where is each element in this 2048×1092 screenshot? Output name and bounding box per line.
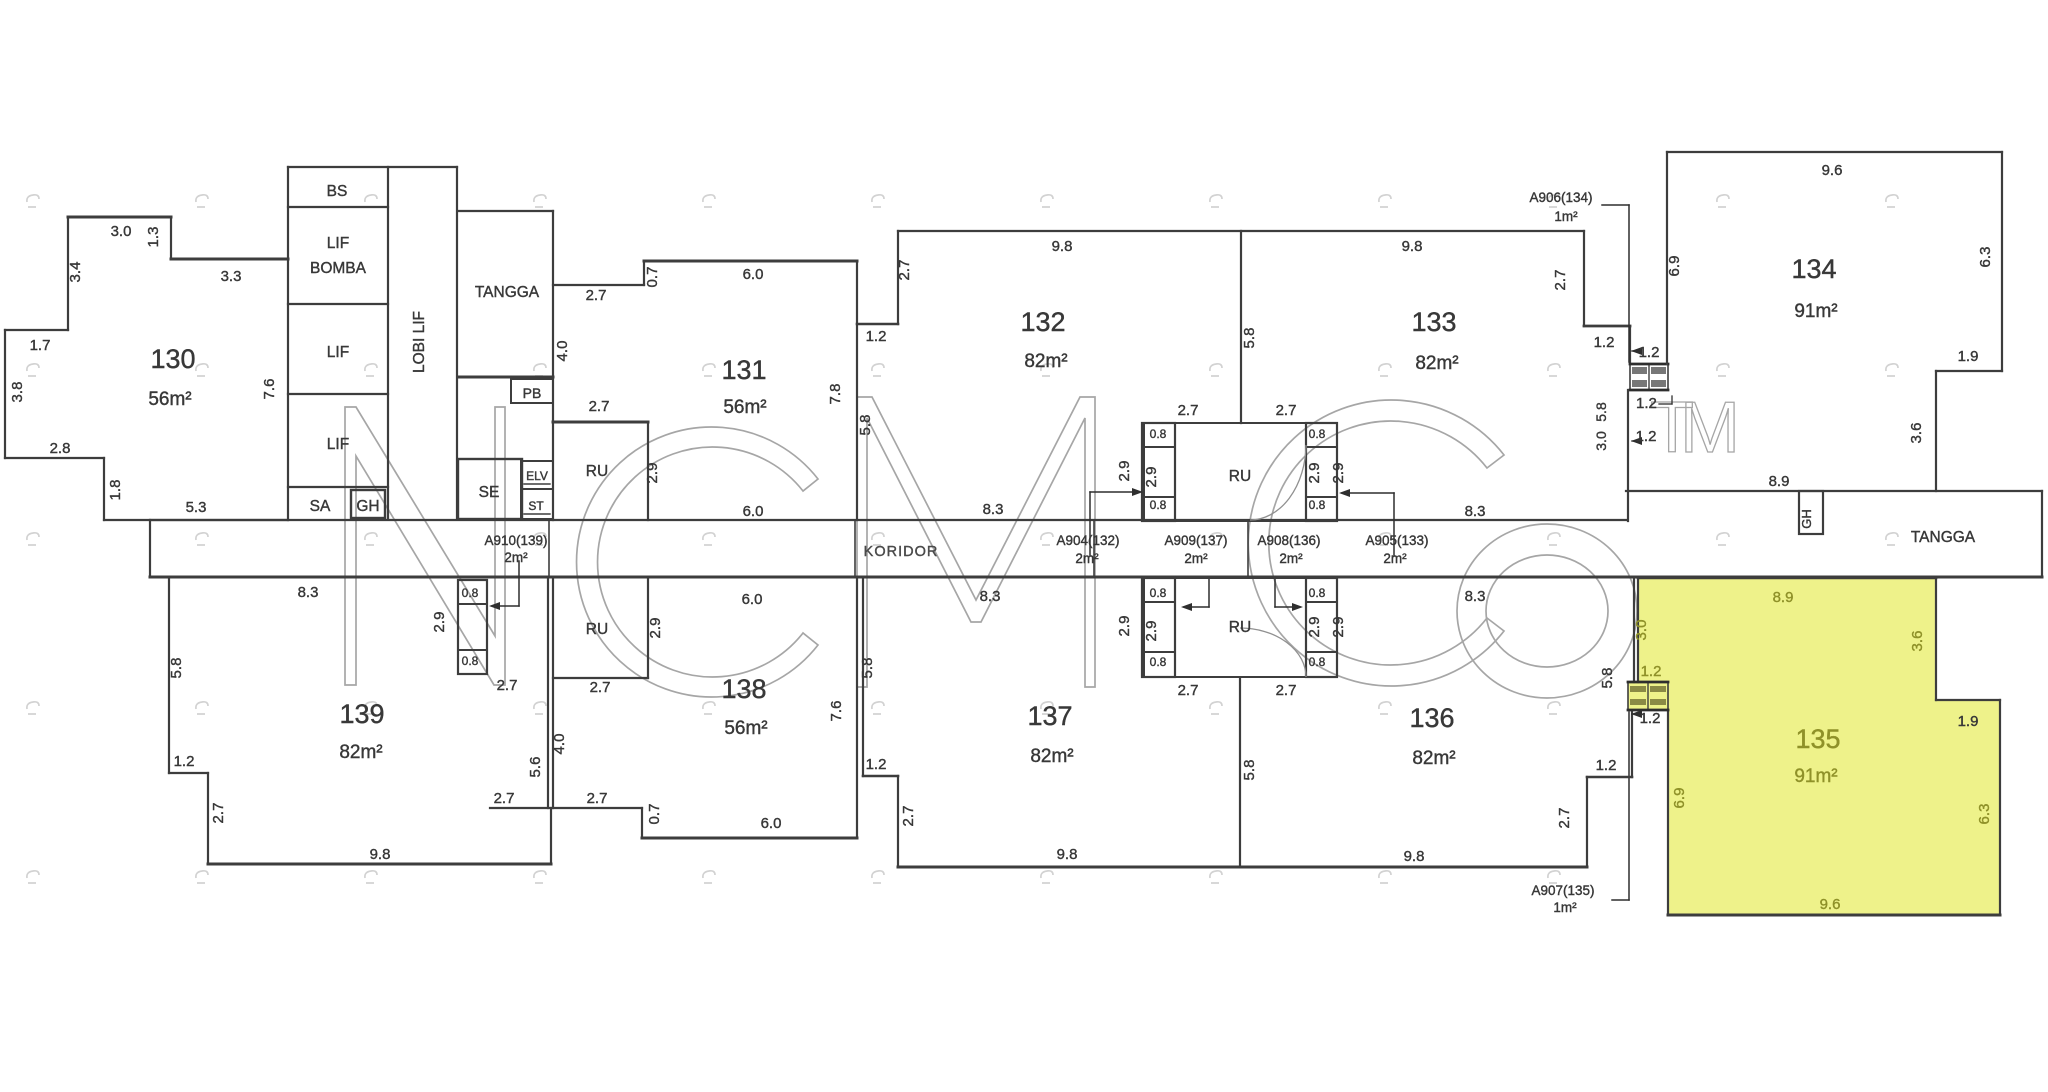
svg-text:PB: PB <box>523 385 542 401</box>
watermark NCMCo <box>345 388 1740 698</box>
PB box <box>511 379 553 403</box>
svg-text:0.8: 0.8 <box>1309 498 1326 512</box>
svg-text:2m²: 2m² <box>1279 551 1303 566</box>
svg-text:GH: GH <box>356 498 379 515</box>
svg-text:7.6: 7.6 <box>261 379 278 400</box>
svg-text:8.3: 8.3 <box>1465 503 1486 520</box>
svg-text:4.0: 4.0 <box>554 341 571 362</box>
svg-text:9.8: 9.8 <box>370 846 391 863</box>
svg-text:1.2: 1.2 <box>1636 428 1657 445</box>
svg-text:RU: RU <box>586 463 608 480</box>
svg-text:LOBI LIF: LOBI LIF <box>411 311 428 373</box>
svg-text:7.6: 7.6 <box>828 701 845 722</box>
svg-text:0.8: 0.8 <box>1150 427 1167 441</box>
svg-text:3.6: 3.6 <box>1908 423 1925 444</box>
svg-text:2.7: 2.7 <box>210 803 227 824</box>
door boxes A907(135) <box>1628 682 1668 710</box>
svg-text:0.8: 0.8 <box>1309 427 1326 441</box>
svg-text:1.9: 1.9 <box>1958 348 1979 365</box>
door box A908(136) <box>1306 578 1337 677</box>
svg-text:9.8: 9.8 <box>1052 238 1073 255</box>
svg-text:1.2: 1.2 <box>866 328 887 345</box>
svg-text:2.7: 2.7 <box>1556 808 1573 829</box>
svg-text:2.8: 2.8 <box>50 440 71 457</box>
svg-text:1.2: 1.2 <box>1594 334 1615 351</box>
svg-text:56m²: 56m² <box>724 718 767 739</box>
svg-text:8.3: 8.3 <box>1465 588 1486 605</box>
svg-text:138: 138 <box>721 674 766 704</box>
svg-text:131: 131 <box>721 355 766 385</box>
svg-text:2m²: 2m² <box>1075 551 1099 566</box>
svg-text:GH: GH <box>1799 509 1814 529</box>
svg-text:1.2: 1.2 <box>1640 710 1661 727</box>
unit 135 border <box>1638 577 1936 580</box>
svg-text:5.6: 5.6 <box>527 757 544 778</box>
svg-text:2m²: 2m² <box>1383 551 1407 566</box>
svg-text:3.0: 3.0 <box>1593 431 1609 451</box>
svg-text:2.7: 2.7 <box>1552 270 1569 291</box>
svg-text:6.9: 6.9 <box>1671 788 1688 809</box>
svg-text:1m²: 1m² <box>1553 900 1577 915</box>
door A906(134) boxes <box>1630 364 1668 390</box>
svg-text:RU: RU <box>1229 619 1251 636</box>
svg-text:2.7: 2.7 <box>590 679 611 696</box>
132/133 divider <box>1240 231 1242 423</box>
svg-text:A905(133): A905(133) <box>1365 533 1428 548</box>
svg-text:1.2: 1.2 <box>866 756 887 773</box>
svg-text:0.7: 0.7 <box>644 267 661 288</box>
svg-text:91m²: 91m² <box>1794 766 1837 787</box>
svg-text:4.0: 4.0 <box>551 734 568 755</box>
svg-text:8.9: 8.9 <box>1773 589 1794 606</box>
svg-text:TANGGA: TANGGA <box>1911 529 1976 546</box>
svg-text:LIF: LIF <box>327 235 349 252</box>
connector A905(133) <box>1393 493 1395 556</box>
svg-text:6.9: 6.9 <box>1666 256 1683 277</box>
svg-text:0.7: 0.7 <box>646 804 663 825</box>
svg-text:2.7: 2.7 <box>587 790 608 807</box>
svg-text:1.2: 1.2 <box>1596 757 1617 774</box>
svg-text:130: 130 <box>150 344 195 374</box>
svg-text:2.9: 2.9 <box>1116 616 1133 637</box>
svg-text:6.0: 6.0 <box>743 503 764 520</box>
svg-text:RU: RU <box>1229 468 1251 485</box>
svg-text:ELV: ELV <box>526 469 548 483</box>
RU room between 137 and 136 <box>1144 578 1337 677</box>
svg-text:A906(134): A906(134) <box>1529 190 1592 205</box>
svg-text:1.9: 1.9 <box>1958 713 1979 730</box>
arrow 1.2 mid <box>1632 440 1637 442</box>
svg-text:2.7: 2.7 <box>900 806 917 827</box>
svg-text:BS: BS <box>327 183 348 200</box>
svg-text:1.7: 1.7 <box>30 337 51 354</box>
svg-text:0.8: 0.8 <box>462 654 479 668</box>
svg-text:2.9: 2.9 <box>1143 467 1160 488</box>
RU room (131) <box>553 421 648 424</box>
lift core BS/LIF BOMBA/LIF/LIF/SA GH <box>288 166 457 168</box>
svg-text:137: 137 <box>1027 701 1072 731</box>
connector A909(137) <box>1208 578 1210 607</box>
arrow 1.2 lower <box>1632 713 1640 715</box>
arrow 1.2 upper <box>1632 350 1637 352</box>
138 bottom-left walls <box>490 807 642 809</box>
unit 130 walls <box>68 216 171 219</box>
137/136 divider <box>1239 679 1241 867</box>
svg-text:2.9: 2.9 <box>1306 463 1323 484</box>
GH box right <box>1799 491 1823 534</box>
koridor cell dividers <box>548 520 550 577</box>
svg-text:1.2: 1.2 <box>1641 663 1662 680</box>
svg-text:KORIDOR: KORIDOR <box>864 544 939 560</box>
svg-text:3.0: 3.0 <box>1633 620 1650 641</box>
svg-text:139: 139 <box>339 699 384 729</box>
svg-text:0.8: 0.8 <box>1150 586 1167 600</box>
svg-text:TM: TM <box>1650 388 1740 468</box>
svg-text:2m²: 2m² <box>1184 551 1208 566</box>
svg-text:82m²: 82m² <box>339 742 382 763</box>
door swing arc lower <box>1240 628 1306 677</box>
SE box <box>458 459 522 519</box>
svg-text:5.8: 5.8 <box>168 658 185 679</box>
svg-text:56m²: 56m² <box>148 389 191 410</box>
svg-text:5.8: 5.8 <box>1241 328 1258 349</box>
svg-text:BOMBA: BOMBA <box>310 260 367 277</box>
ST box <box>521 489 553 519</box>
svg-text:1.3: 1.3 <box>145 227 162 248</box>
svg-text:TANGGA: TANGGA <box>475 284 540 301</box>
136 right side <box>1586 777 1588 867</box>
svg-text:0.8: 0.8 <box>1309 586 1326 600</box>
svg-text:1.2: 1.2 <box>1636 395 1657 412</box>
svg-text:6.0: 6.0 <box>743 266 764 283</box>
door box A910(139) <box>458 580 487 674</box>
svg-text:6.0: 6.0 <box>742 591 763 608</box>
connector A908(136) <box>1274 578 1276 607</box>
unit 134 walls <box>1667 151 2002 153</box>
door box A905(133) <box>1306 423 1337 521</box>
unit 139 walls <box>168 577 170 773</box>
svg-text:2.7: 2.7 <box>1276 402 1297 419</box>
svg-text:2.9: 2.9 <box>1143 621 1160 642</box>
svg-text:1.2: 1.2 <box>174 753 195 770</box>
svg-text:133: 133 <box>1411 307 1456 337</box>
svg-text:2.9: 2.9 <box>644 463 661 484</box>
svg-text:A909(137): A909(137) <box>1164 533 1227 548</box>
svg-text:0.8: 0.8 <box>1150 498 1167 512</box>
svg-text:0.8: 0.8 <box>1309 655 1326 669</box>
svg-text:3.6: 3.6 <box>1909 631 1926 652</box>
svg-text:A904(132): A904(132) <box>1056 533 1119 548</box>
131/132 step <box>857 323 898 326</box>
svg-text:2.7: 2.7 <box>896 260 913 281</box>
svg-text:2.7: 2.7 <box>586 287 607 304</box>
svg-text:0.8: 0.8 <box>1150 655 1167 669</box>
svg-text:2.9: 2.9 <box>1330 463 1347 484</box>
svg-text:2m²: 2m² <box>504 550 528 565</box>
svg-text:2.9: 2.9 <box>1306 617 1323 638</box>
svg-text:82m²: 82m² <box>1030 746 1073 767</box>
svg-text:2.7: 2.7 <box>497 677 518 694</box>
connector A910(139) <box>518 561 520 606</box>
svg-text:1.2: 1.2 <box>1639 344 1660 361</box>
svg-text:134: 134 <box>1791 254 1836 284</box>
svg-text:9.6: 9.6 <box>1820 896 1841 913</box>
unit 135 highlighted area <box>1628 578 2000 915</box>
133 right step <box>1584 325 1630 328</box>
door box A904(132) <box>1142 423 1175 521</box>
svg-text:RU: RU <box>586 621 608 638</box>
connector A906(134) <box>1602 204 1629 206</box>
svg-text:2.9: 2.9 <box>431 612 448 633</box>
svg-text:SA: SA <box>310 498 331 515</box>
svg-text:9.8: 9.8 <box>1402 238 1423 255</box>
svg-text:91m²: 91m² <box>1794 301 1837 322</box>
svg-text:3.3: 3.3 <box>221 268 242 285</box>
tangga left room <box>458 210 553 212</box>
svg-text:136: 136 <box>1409 703 1454 733</box>
svg-text:6.3: 6.3 <box>1977 247 1994 268</box>
svg-text:5.8: 5.8 <box>1593 402 1609 422</box>
svg-text:6.0: 6.0 <box>761 815 782 832</box>
svg-text:82m²: 82m² <box>1412 748 1455 769</box>
ELV box <box>521 461 553 489</box>
svg-text:2.7: 2.7 <box>1276 682 1297 699</box>
svg-text:5.8: 5.8 <box>1241 760 1258 781</box>
svg-text:5.8: 5.8 <box>857 415 874 436</box>
svg-text:3.8: 3.8 <box>9 382 26 403</box>
watermark curl grid <box>27 195 1898 883</box>
svg-text:9.6: 9.6 <box>1822 162 1843 179</box>
svg-text:56m²: 56m² <box>723 397 766 418</box>
svg-text:3.0: 3.0 <box>111 223 132 240</box>
svg-text:LIF: LIF <box>327 436 349 453</box>
svg-text:2.9: 2.9 <box>647 618 664 639</box>
svg-text:ST: ST <box>528 499 544 513</box>
connector A907(135) <box>1612 899 1629 901</box>
svg-text:8.3: 8.3 <box>983 501 1004 518</box>
svg-text:135: 135 <box>1795 724 1840 754</box>
svg-text:6.3: 6.3 <box>1976 804 1993 825</box>
svg-text:A907(135): A907(135) <box>1531 883 1594 898</box>
svg-text:2.9: 2.9 <box>1116 461 1133 482</box>
RU room (138) <box>553 677 648 679</box>
connector A904(132) <box>1089 492 1091 556</box>
unit 131 walls <box>553 284 644 286</box>
koridor walls <box>150 519 1626 521</box>
svg-text:2.9: 2.9 <box>1330 617 1347 638</box>
svg-text:5.3: 5.3 <box>186 499 207 516</box>
svg-text:82m²: 82m² <box>1024 351 1067 372</box>
door box A909(137) <box>1142 578 1175 677</box>
svg-text:9.8: 9.8 <box>1404 848 1425 865</box>
svg-text:9.8: 9.8 <box>1057 846 1078 863</box>
svg-text:0.8: 0.8 <box>462 586 479 600</box>
svg-text:5.8: 5.8 <box>1599 668 1616 689</box>
svg-text:132: 132 <box>1020 307 1065 337</box>
GH box left <box>351 490 385 518</box>
svg-text:2.7: 2.7 <box>589 398 610 415</box>
svg-text:1m²: 1m² <box>1554 209 1578 224</box>
svg-text:8.3: 8.3 <box>298 584 319 601</box>
svg-text:3.4: 3.4 <box>67 262 84 283</box>
svg-text:8.3: 8.3 <box>980 588 1001 605</box>
svg-text:2.7: 2.7 <box>1178 402 1199 419</box>
svg-text:SE: SE <box>479 484 500 501</box>
svg-text:1.8: 1.8 <box>107 480 124 501</box>
137 step and bottom <box>863 775 898 778</box>
svg-text:2.7: 2.7 <box>494 790 515 807</box>
RU room between 132 and 133 <box>1144 423 1337 521</box>
svg-text:A910(139): A910(139) <box>484 533 547 548</box>
svg-text:82m²: 82m² <box>1415 353 1458 374</box>
svg-text:LIF: LIF <box>327 344 349 361</box>
138 right / 137 left walls <box>856 577 858 838</box>
door swing arc upper <box>1250 445 1306 520</box>
svg-text:7.8: 7.8 <box>827 384 844 405</box>
unit 132 / 133 top <box>898 230 1584 232</box>
svg-text:8.9: 8.9 <box>1769 473 1790 490</box>
svg-text:A908(136): A908(136) <box>1257 533 1320 548</box>
svg-text:5.8: 5.8 <box>859 658 876 679</box>
svg-text:2.7: 2.7 <box>1178 682 1199 699</box>
tangga right band <box>1626 490 2042 492</box>
